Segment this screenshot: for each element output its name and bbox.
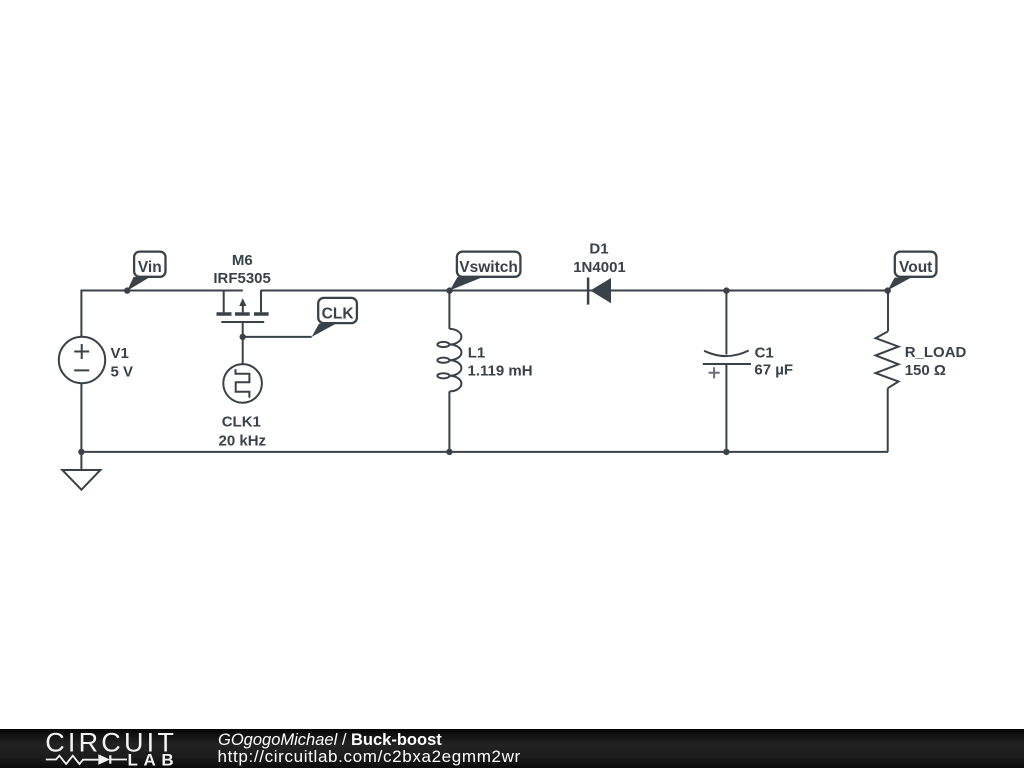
svg-text:D1: D1: [589, 241, 608, 258]
svg-text:L1: L1: [468, 344, 486, 361]
svg-text:Vout: Vout: [899, 259, 932, 276]
svg-text:67 µF: 67 µF: [754, 362, 793, 379]
svg-text:150 Ω: 150 Ω: [905, 362, 946, 379]
svg-text:5 V: 5 V: [111, 363, 134, 380]
svg-text:C1: C1: [755, 345, 774, 362]
svg-text:1N4001: 1N4001: [573, 259, 626, 276]
svg-text:1.119 mH: 1.119 mH: [468, 362, 533, 379]
svg-text:IRF5305: IRF5305: [213, 270, 271, 287]
svg-text:Vin: Vin: [138, 259, 162, 276]
svg-text:20 kHz: 20 kHz: [219, 432, 267, 449]
svg-text:Vswitch: Vswitch: [459, 259, 518, 276]
svg-text:M6: M6: [232, 252, 253, 269]
svg-text:V1: V1: [111, 345, 129, 362]
svg-text:LAB: LAB: [128, 751, 180, 768]
svg-text:CLK1: CLK1: [222, 414, 261, 431]
svg-text:CLK: CLK: [322, 305, 355, 322]
svg-text:R_LOAD: R_LOAD: [905, 344, 967, 361]
